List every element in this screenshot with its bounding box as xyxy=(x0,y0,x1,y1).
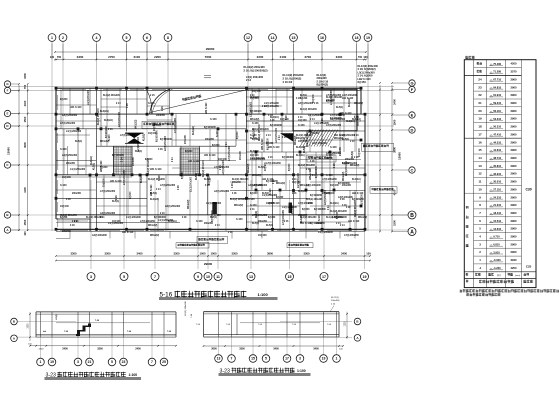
svg-text:2 14: 2 14 xyxy=(215,224,220,227)
svg-text:2400: 2400 xyxy=(62,347,68,350)
svg-text:1:100: 1:100 xyxy=(129,373,138,377)
svg-text:2 14: 2 14 xyxy=(121,157,124,162)
svg-text:3 18: 3 18 xyxy=(178,185,180,190)
svg-text:L1(1) 200x300: L1(1) 200x300 xyxy=(282,207,298,209)
svg-text:9.710: 9.710 xyxy=(493,235,500,239)
svg-text:3 18: 3 18 xyxy=(346,207,351,209)
svg-text:2 16: 2 16 xyxy=(162,106,164,111)
svg-text:1:100: 1:100 xyxy=(297,369,306,373)
svg-text:KL10(2) 200x400: KL10(2) 200x400 xyxy=(244,65,266,69)
svg-text:3 18: 3 18 xyxy=(66,199,71,201)
svg-text:h=100: h=100 xyxy=(252,123,259,125)
svg-text:8@200: 8@200 xyxy=(185,151,193,153)
svg-text:LB1 h=110: LB1 h=110 xyxy=(188,161,200,163)
svg-text:3940: 3940 xyxy=(511,258,517,262)
svg-text:10@100: 10@100 xyxy=(250,98,259,100)
svg-text:3: 3 xyxy=(299,357,301,361)
svg-text:10@100: 10@100 xyxy=(359,148,361,157)
svg-text:13: 13 xyxy=(217,357,221,361)
svg-text:47.410: 47.410 xyxy=(493,133,501,137)
grid centerlines vertical (bottom axes) xyxy=(91,180,365,269)
svg-text:L1(1) 200x300: L1(1) 200x300 xyxy=(70,169,86,171)
svg-text:200x450: 200x450 xyxy=(258,220,268,223)
svg-text:10@100: 10@100 xyxy=(298,120,307,122)
svg-text:3300: 3300 xyxy=(105,252,111,256)
svg-text:-0.030: -0.030 xyxy=(493,258,501,262)
svg-text:3400: 3400 xyxy=(313,348,319,351)
svg-text:2 16: 2 16 xyxy=(284,221,289,223)
svg-text:KL3(2A): KL3(2A) xyxy=(150,198,159,201)
svg-text:17: 17 xyxy=(322,275,326,279)
svg-text:29800: 29800 xyxy=(206,47,215,51)
svg-text:2900: 2900 xyxy=(511,164,517,168)
svg-text:8@100/200: 8@100/200 xyxy=(282,157,294,159)
svg-text:8@200: 8@200 xyxy=(342,163,350,165)
svg-text:KL5(1): KL5(1) xyxy=(250,138,257,140)
svg-text:L2(2) 200x300: L2(2) 200x300 xyxy=(332,217,348,219)
svg-text:2900: 2900 xyxy=(511,242,517,246)
strip section right: bottom dims xyxy=(203,345,344,350)
svg-text:h=100: h=100 xyxy=(217,130,219,137)
svg-text:WKL2(2): WKL2(2) xyxy=(358,217,367,219)
svg-text:2900: 2900 xyxy=(511,227,517,231)
svg-text:8@200: 8@200 xyxy=(266,143,274,145)
svg-text:L7(3) 200x350: L7(3) 200x350 xyxy=(266,163,282,165)
svg-text:16: 16 xyxy=(478,140,482,144)
svg-text:3 18: 3 18 xyxy=(70,225,75,227)
svg-text:h=100: h=100 xyxy=(250,135,257,137)
svg-text:13: 13 xyxy=(249,275,253,279)
svg-text:L2(2) 200x300: L2(2) 200x300 xyxy=(298,103,314,105)
boxed level annotation 5 xyxy=(307,155,336,162)
svg-text:KL5(1): KL5(1) xyxy=(336,107,343,109)
svg-text:2 14: 2 14 xyxy=(246,78,252,82)
svg-text:LB1 h=110: LB1 h=110 xyxy=(122,232,134,234)
svg-text:WKL2(2): WKL2(2) xyxy=(334,138,343,140)
svg-text:LB1 h=110: LB1 h=110 xyxy=(150,169,162,171)
strip section right: bottom axis bubble pairs xyxy=(215,337,341,362)
svg-text:10@100: 10@100 xyxy=(330,185,339,187)
svg-text:100: 100 xyxy=(50,56,55,59)
strip section left: thick stepped stair cut xyxy=(76,324,91,337)
svg-text:200x450: 200x450 xyxy=(316,222,326,225)
svg-text:8: 8 xyxy=(167,36,169,40)
svg-text:2 14: 2 14 xyxy=(327,205,330,210)
svg-text:2 18; 8@200(2): 2 18; 8@200(2) xyxy=(283,76,302,80)
svg-text:WKL2(2): WKL2(2) xyxy=(250,119,260,121)
main floor plan outer walls xyxy=(56,88,365,231)
svg-text:13900: 13900 xyxy=(7,147,11,155)
svg-text:75.480: 75.480 xyxy=(493,62,501,66)
svg-text:WKL2(2): WKL2(2) xyxy=(100,141,110,143)
svg-text:h=100: h=100 xyxy=(196,221,203,223)
svg-text:2900: 2900 xyxy=(511,148,517,152)
svg-text:h=100: h=100 xyxy=(109,134,111,141)
svg-text:2900: 2900 xyxy=(511,219,517,223)
svg-text:L7(3) 200x350: L7(3) 200x350 xyxy=(252,215,268,217)
svg-text:8@200: 8@200 xyxy=(289,163,291,171)
svg-text:10@100: 10@100 xyxy=(252,91,261,93)
svg-text:E: E xyxy=(6,112,8,116)
svg-text:2900: 2900 xyxy=(511,101,517,105)
window mullion lines on outer walls xyxy=(58,89,352,230)
svg-text:8@150: 8@150 xyxy=(358,80,367,84)
right axis bubbles xyxy=(392,80,416,236)
svg-text:21: 21 xyxy=(88,360,92,364)
dark pier rect 2 xyxy=(289,203,292,214)
svg-text:3 18: 3 18 xyxy=(354,117,359,119)
svg-text:KL5(1): KL5(1) xyxy=(262,193,269,195)
left axis bubbles A-G xyxy=(4,81,19,233)
svg-text:L21(1): L21(1) xyxy=(56,314,58,320)
svg-text:1500: 1500 xyxy=(393,119,397,125)
svg-text:KL5(1): KL5(1) xyxy=(150,193,157,195)
svg-text:2700: 2700 xyxy=(108,55,115,59)
svg-text:L7(3) 200x350: L7(3) 200x350 xyxy=(120,135,136,137)
svg-text:L7(3) 200x350: L7(3) 200x350 xyxy=(60,123,76,125)
svg-text:L2(2) 200x300: L2(2) 200x300 xyxy=(62,115,78,117)
svg-text:10@100: 10@100 xyxy=(60,206,69,208)
svg-text:18.410: 18.410 xyxy=(493,211,501,215)
svg-text:-4.230: -4.230 xyxy=(493,266,501,270)
stair hatch middle xyxy=(180,148,200,176)
svg-text:L1(1) 200x300: L1(1) 200x300 xyxy=(191,176,193,192)
boxed level annotation 6 xyxy=(362,143,394,151)
svg-text:2900: 2900 xyxy=(511,172,517,176)
svg-text:8@100/200: 8@100/200 xyxy=(204,127,217,129)
svg-text:2900: 2900 xyxy=(511,140,517,144)
svg-text:WKL2(2): WKL2(2) xyxy=(350,165,360,167)
svg-text:5: 5 xyxy=(111,360,113,364)
strip section left: bottom dims xyxy=(29,345,177,350)
svg-text:10@100: 10@100 xyxy=(62,177,71,179)
svg-text:3 18: 3 18 xyxy=(127,103,129,108)
interior walls vertical xyxy=(61,88,350,231)
svg-text:15: 15 xyxy=(292,36,296,40)
svg-text:2400: 2400 xyxy=(39,348,45,350)
svg-text:19: 19 xyxy=(366,36,370,40)
svg-text:8@200: 8@200 xyxy=(300,98,308,100)
svg-text:53.210: 53.210 xyxy=(493,117,501,121)
svg-text:17: 17 xyxy=(478,132,482,136)
svg-text:44.510: 44.510 xyxy=(493,140,501,144)
svg-text:1000: 1000 xyxy=(211,252,217,256)
strip section right: walls xyxy=(204,312,340,337)
svg-text:8@200: 8@200 xyxy=(250,193,258,195)
svg-text:1: 1 xyxy=(51,36,53,40)
svg-text:-1: -1 xyxy=(479,266,482,270)
svg-text:h=100: h=100 xyxy=(319,214,321,221)
svg-text:L7(3) 200x350: L7(3) 200x350 xyxy=(298,203,314,205)
svg-text:L2(2) 200x300: L2(2) 200x300 xyxy=(312,143,328,145)
svg-text:h=100: h=100 xyxy=(60,149,67,151)
svg-text:8@200: 8@200 xyxy=(145,159,153,161)
svg-text:LB1 h=110: LB1 h=110 xyxy=(262,179,274,181)
svg-text:14: 14 xyxy=(271,36,275,40)
svg-text:KL3(2A): KL3(2A) xyxy=(296,154,305,157)
svg-text:2 16: 2 16 xyxy=(268,157,273,159)
svg-text:2 16: 2 16 xyxy=(292,193,297,195)
svg-text:LB1 h=110: LB1 h=110 xyxy=(70,107,82,109)
svg-text:3400: 3400 xyxy=(137,252,143,256)
svg-text:L2(2) 200x300: L2(2) 200x300 xyxy=(92,235,108,237)
svg-text:2 16: 2 16 xyxy=(116,195,118,200)
svg-text:61.910: 61.910 xyxy=(493,93,501,97)
svg-text:10@100: 10@100 xyxy=(258,235,267,237)
boxed level annotation 3 xyxy=(176,243,209,248)
svg-text:2 14: 2 14 xyxy=(310,174,315,177)
svg-text:8@100/200: 8@100/200 xyxy=(316,165,318,178)
svg-text:8@200: 8@200 xyxy=(60,99,68,101)
svg-text:2900: 2900 xyxy=(511,93,517,97)
svg-text:L7(3) 200x350: L7(3) 200x350 xyxy=(326,125,342,127)
svg-text:2400: 2400 xyxy=(23,100,27,106)
svg-text:100: 100 xyxy=(366,252,371,256)
svg-text:KL3(2A): KL3(2A) xyxy=(346,120,355,123)
svg-text:KL1(2) 200x400: KL1(2) 200x400 xyxy=(326,96,343,99)
svg-text:KL3(2A): KL3(2A) xyxy=(168,220,177,223)
svg-text:LB1 h=110: LB1 h=110 xyxy=(352,193,364,195)
svg-text:KL5(1): KL5(1) xyxy=(144,134,146,141)
svg-text:KL1(2) 200x400: KL1(2) 200x400 xyxy=(354,200,357,217)
svg-text:KL5(1): KL5(1) xyxy=(196,173,198,180)
svg-text:12: 12 xyxy=(478,172,482,176)
svg-text:3300: 3300 xyxy=(239,348,245,351)
svg-text:2 16: 2 16 xyxy=(282,137,287,139)
right dimension chains xyxy=(379,82,401,232)
table bottom merged label row xyxy=(466,280,533,283)
svg-text:L2(2) 200x300: L2(2) 200x300 xyxy=(62,155,78,157)
svg-text:3300: 3300 xyxy=(304,252,310,256)
svg-text:L1(1) 200x300: L1(1) 200x300 xyxy=(88,89,90,105)
svg-text:3 18: 3 18 xyxy=(232,193,237,195)
svg-text:L7(3) 200x350: L7(3) 200x350 xyxy=(124,169,126,185)
svg-text:200x450: 200x450 xyxy=(232,181,242,184)
svg-text:2900: 2900 xyxy=(511,77,517,81)
svg-text:2 14: 2 14 xyxy=(250,208,255,211)
svg-text:KL3(2A): KL3(2A) xyxy=(104,119,113,122)
svg-text:2100: 2100 xyxy=(133,55,140,59)
svg-text:13900: 13900 xyxy=(398,152,402,160)
strip section right: vertical dim xyxy=(344,312,347,339)
svg-text:64.810: 64.810 xyxy=(493,85,501,89)
svg-text:29800: 29800 xyxy=(204,262,213,266)
svg-text:h=100: h=100 xyxy=(236,219,243,221)
svg-text:25: 25 xyxy=(162,360,166,364)
svg-text:KL1(2) 200x400: KL1(2) 200x400 xyxy=(202,160,205,177)
svg-text:8@200: 8@200 xyxy=(212,145,220,147)
svg-text:8@200: 8@200 xyxy=(100,167,108,169)
svg-text:200x450: 200x450 xyxy=(204,222,214,225)
interior walls horizontal xyxy=(56,114,365,223)
svg-text:L1(1) 200x300: L1(1) 200x300 xyxy=(306,185,322,187)
svg-text:100: 100 xyxy=(363,56,368,59)
svg-text:L7(3) 200x350: L7(3) 200x350 xyxy=(344,235,360,237)
svg-text:7: 7 xyxy=(151,360,153,364)
svg-text:L2(2) 200x300: L2(2) 200x300 xyxy=(276,127,278,143)
svg-text:LB1 h=110: LB1 h=110 xyxy=(262,138,264,150)
svg-text:9: 9 xyxy=(197,275,199,279)
svg-text:WKL2(2): WKL2(2) xyxy=(150,235,159,237)
svg-text:KL21(1): KL21(1) xyxy=(331,297,339,299)
svg-text:2 14: 2 14 xyxy=(171,157,174,162)
svg-text:KL1(2) 200x400: KL1(2) 200x400 xyxy=(300,108,317,111)
svg-text:2 16: 2 16 xyxy=(354,157,359,159)
svg-text:200x400: 200x400 xyxy=(331,300,340,302)
svg-text:10: 10 xyxy=(206,275,210,279)
svg-text:7600: 7600 xyxy=(205,55,212,59)
svg-text:KL3(2A): KL3(2A) xyxy=(270,116,279,119)
svg-text:17: 17 xyxy=(285,357,289,361)
svg-text:8@100/200: 8@100/200 xyxy=(112,155,125,157)
svg-text:KL5(1): KL5(1) xyxy=(258,167,265,169)
svg-text:3 18: 3 18 xyxy=(340,199,345,201)
svg-text:3300: 3300 xyxy=(232,252,238,256)
annotation texts above plan xyxy=(244,64,379,87)
boxed level annotation 1 xyxy=(142,121,176,128)
svg-text:6.810: 6.810 xyxy=(493,243,500,247)
notes under table xyxy=(460,289,560,296)
svg-text:KL1(2) 200x400: KL1(2) 200x400 xyxy=(306,130,309,147)
svg-text:3300: 3300 xyxy=(71,252,77,256)
extension stubs below plan xyxy=(56,231,355,238)
svg-text:h=100: h=100 xyxy=(270,188,272,195)
svg-text:2900: 2900 xyxy=(511,117,517,121)
svg-text:KL5(1): KL5(1) xyxy=(75,141,82,143)
svg-text:3000: 3000 xyxy=(211,348,217,351)
svg-text:h=100: h=100 xyxy=(330,147,337,149)
svg-text:200x450: 200x450 xyxy=(72,192,82,195)
svg-text:3 18: 3 18 xyxy=(334,163,336,168)
svg-text:2900: 2900 xyxy=(511,125,517,129)
svg-text:8@100/200: 8@100/200 xyxy=(154,217,166,219)
svg-text:23: 23 xyxy=(478,85,482,89)
svg-text:LB1 h=110: LB1 h=110 xyxy=(342,98,354,100)
beam/slab annotation texts inside plan xyxy=(60,89,365,227)
long diagonal sloped line xyxy=(150,89,250,113)
svg-text:2900: 2900 xyxy=(511,132,517,136)
svg-text:KL5(1): KL5(1) xyxy=(326,158,333,160)
svg-text:3 18: 3 18 xyxy=(158,149,163,151)
svg-text:10@100: 10@100 xyxy=(292,182,301,184)
svg-text:10@100: 10@100 xyxy=(148,133,157,135)
svg-text:10@100: 10@100 xyxy=(298,141,307,143)
svg-text:2 14: 2 14 xyxy=(350,140,355,143)
column fills at wall intersections xyxy=(55,87,367,231)
svg-text:1: 1 xyxy=(336,357,338,361)
black bowtie symbol xyxy=(127,133,143,143)
svg-text:16: 16 xyxy=(320,36,324,40)
svg-text:3900: 3900 xyxy=(393,147,397,153)
svg-text:KL5(1): KL5(1) xyxy=(210,217,217,219)
svg-text:2900: 2900 xyxy=(511,250,517,254)
svg-text:8@200: 8@200 xyxy=(268,217,276,219)
strip section left: walls xyxy=(36,312,176,337)
svg-text:4200: 4200 xyxy=(511,62,517,66)
svg-text:WKL2(2): WKL2(2) xyxy=(354,103,363,105)
svg-text:2900: 2900 xyxy=(511,235,517,239)
svg-text:15.510: 15.510 xyxy=(493,219,501,223)
svg-text:30.010: 30.010 xyxy=(493,180,501,184)
svg-text:KL1(2) 200x400: KL1(2) 200x400 xyxy=(230,198,247,201)
svg-text:h=100: h=100 xyxy=(148,103,155,105)
svg-text:19: 19 xyxy=(50,360,54,364)
svg-text:14: 14 xyxy=(478,156,482,160)
dense right-wing beam labels xyxy=(60,94,367,237)
svg-text:8@200: 8@200 xyxy=(237,131,239,139)
svg-text:41.610: 41.610 xyxy=(493,148,501,152)
svg-text:50.310: 50.310 xyxy=(493,125,501,129)
table rows content xyxy=(477,62,517,270)
main plan title xyxy=(159,291,278,300)
svg-text:10@100: 10@100 xyxy=(250,155,259,157)
svg-text:100: 100 xyxy=(23,231,27,236)
svg-text:L2(2) 200x300: L2(2) 200x300 xyxy=(325,189,327,205)
grid centerlines vertical (top axes) xyxy=(52,44,368,231)
svg-text:L7(3) 200x350: L7(3) 200x350 xyxy=(160,185,176,187)
storey height table frame xyxy=(464,60,536,288)
table row lines xyxy=(464,68,521,264)
svg-text:2 16: 2 16 xyxy=(306,169,311,171)
svg-text:8@100/200: 8@100/200 xyxy=(160,139,173,141)
svg-text:KL1(2) 200x400: KL1(2) 200x400 xyxy=(103,94,120,97)
svg-text:F: F xyxy=(7,89,9,93)
svg-text:L1(1) 200x300: L1(1) 200x300 xyxy=(108,223,124,225)
storey height table title xyxy=(466,56,475,59)
svg-text:4: 4 xyxy=(96,36,98,40)
svg-text:2700: 2700 xyxy=(304,55,311,59)
svg-text:h=100: h=100 xyxy=(210,119,217,121)
svg-text:8@200: 8@200 xyxy=(60,217,68,219)
svg-text:2 16: 2 16 xyxy=(108,129,113,131)
svg-text:KL1(2) 200x400: KL1(2) 200x400 xyxy=(86,216,103,219)
svg-text:2 16: 2 16 xyxy=(314,103,319,105)
svg-text:12.610: 12.610 xyxy=(493,227,501,231)
svg-text:3.910: 3.910 xyxy=(493,250,500,254)
svg-text:WKL2(2): WKL2(2) xyxy=(252,175,262,177)
svg-text:WKL2(2): WKL2(2) xyxy=(148,225,158,227)
svg-text:700: 700 xyxy=(23,84,27,89)
boxed level annotation 2 xyxy=(197,237,228,244)
svg-text:WKL2(2): WKL2(2) xyxy=(136,119,138,129)
svg-text:KL3(2A): KL3(2A) xyxy=(330,202,339,205)
svg-text:E: E xyxy=(411,112,414,117)
svg-text:200x450: 200x450 xyxy=(239,150,242,160)
svg-text:200x450: 200x450 xyxy=(184,134,187,144)
svg-text:2 14: 2 14 xyxy=(278,135,281,140)
svg-text:56.110: 56.110 xyxy=(493,109,501,113)
svg-text:L1(1) 200x300: L1(1) 200x300 xyxy=(126,217,142,219)
svg-text:18: 18 xyxy=(478,125,482,129)
strip section right: title xyxy=(219,368,311,376)
svg-text:10@100: 10@100 xyxy=(266,203,275,205)
svg-text:24: 24 xyxy=(478,77,482,81)
svg-text:3: 3 xyxy=(90,275,92,279)
svg-text:200x450: 200x450 xyxy=(322,192,332,195)
svg-text:3300: 3300 xyxy=(77,55,84,59)
svg-text:3300: 3300 xyxy=(97,347,103,350)
svg-text:KL5(1): KL5(1) xyxy=(94,163,96,170)
svg-text:2 14: 2 14 xyxy=(225,142,228,147)
svg-text:3: 3 xyxy=(77,360,79,364)
svg-text:KL1(2) 200x400: KL1(2) 200x400 xyxy=(232,178,249,181)
svg-text:6: 6 xyxy=(146,36,148,40)
svg-text:21.310: 21.310 xyxy=(493,203,501,207)
svg-text:3400: 3400 xyxy=(273,348,279,351)
svg-text:3900: 3900 xyxy=(23,142,27,148)
svg-text:38.710: 38.710 xyxy=(493,156,501,160)
svg-text:WKL2(2): WKL2(2) xyxy=(188,199,190,209)
